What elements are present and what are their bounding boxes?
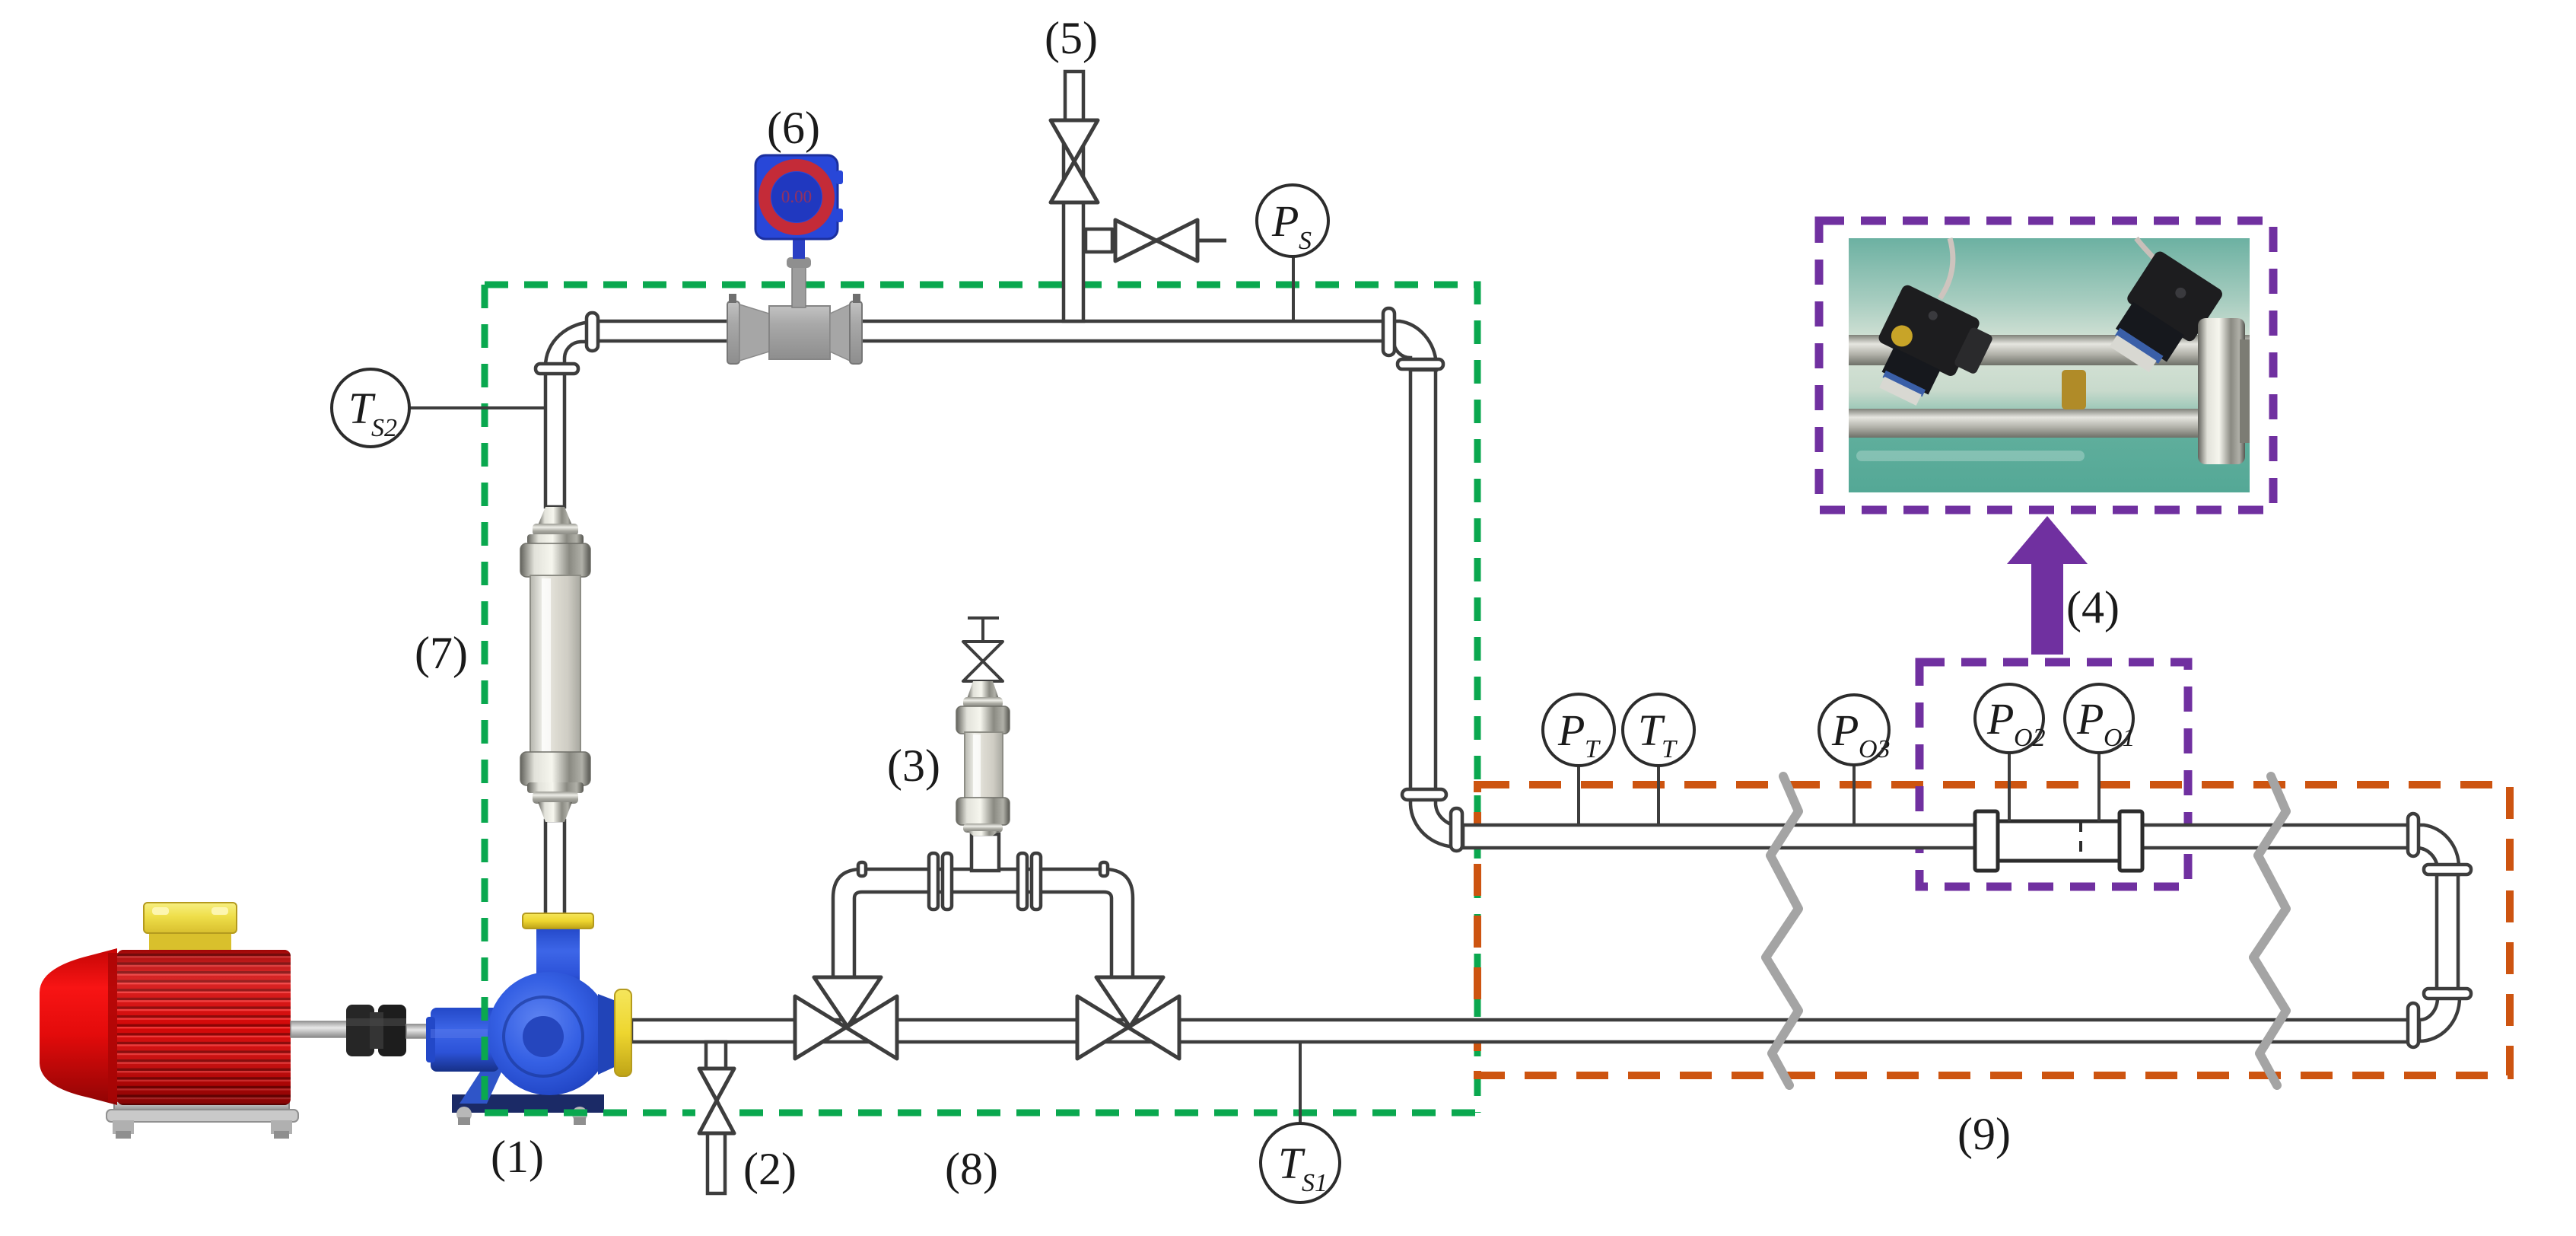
svg-text:S1: S1: [1302, 1169, 1328, 1197]
turbine flow meter (6) on top header: [727, 155, 862, 364]
label (2) drain valve: [743, 1144, 797, 1194]
svg-text:O3: O3: [1859, 735, 1891, 763]
centrifugal pump (1): [426, 913, 631, 1125]
svg-text:(5): (5): [1045, 13, 1098, 63]
top-right elbow: [1394, 321, 1436, 370]
svg-text:P: P: [1986, 694, 2014, 744]
right-pipe bottom elbow to test pipe: [1410, 799, 1463, 847]
bottom return pipe: [631, 1020, 2409, 1042]
sight glass (3) on bypass tee: [956, 681, 1010, 836]
sensor P_O3: [1819, 695, 1891, 825]
pipe-break zigzag right: [2253, 776, 2286, 1085]
flexible coupling: [346, 1005, 434, 1056]
motor shaft: [291, 1021, 350, 1037]
bypass right elbow lip: [1100, 862, 1108, 876]
vertical suction pipe pump to sight glass (7): [545, 820, 564, 919]
bypass loop pipe (staple shape): [833, 869, 1133, 980]
needle valve above sight glass (3): [963, 618, 1003, 681]
sensor P_T: [1543, 694, 1614, 825]
svg-text:(7): (7): [415, 628, 468, 678]
svg-text:(8): (8): [945, 1144, 998, 1194]
vent side valve with nipple (right of branch 5): [1086, 220, 1226, 261]
svg-text:P: P: [2076, 694, 2104, 744]
drain stub pipe (2): [706, 1042, 726, 1069]
top-left elbow: [545, 322, 598, 373]
bypass flange pair left: [929, 853, 938, 909]
photo inset box (purple dashed): [1819, 221, 2273, 510]
suction cone right: [598, 994, 618, 1075]
svg-text:0.00: 0.00: [781, 187, 812, 206]
meter flanges and body: [727, 301, 739, 364]
motor finned body (red): [117, 950, 291, 1105]
svg-text:(2): (2): [743, 1144, 797, 1194]
pipe-break zigzag left: [1766, 776, 1798, 1085]
motor terminal box (yellow): [149, 930, 231, 967]
outdoor-loop boundary box (9) (orange dashed): [1477, 785, 2510, 1075]
bypass left elbow lip: [858, 862, 866, 876]
motor feet: [114, 1091, 289, 1111]
arrow (4) purple callout arrow: [2007, 516, 2088, 655]
svg-text:O1: O1: [2104, 724, 2136, 752]
right end vertical pipe of return loop: [2437, 873, 2458, 990]
svg-text:S2: S2: [371, 414, 397, 442]
svg-text:(9): (9): [1957, 1109, 2011, 1159]
label (5) relief branch: [1045, 13, 1098, 63]
suction flange (yellow): [615, 989, 631, 1076]
pump-side shaft: [406, 1024, 434, 1038]
label (7) suction sight glass: [415, 628, 468, 678]
relief valve on branch (5) (globe valve, vertical bowtie): [1051, 120, 1098, 202]
top discharge flange (yellow): [523, 913, 593, 929]
label (1) pump: [491, 1132, 544, 1182]
svg-text:P: P: [1557, 706, 1585, 755]
svg-text:(6): (6): [767, 103, 820, 153]
label (4): [2066, 582, 2120, 632]
right end lower elbow: [2419, 998, 2460, 1041]
bearing housing: [431, 1008, 499, 1072]
riser pipe of relief branch (5): [1064, 122, 1083, 321]
sensor T_S1 (temperature): [1261, 1042, 1340, 1203]
svg-text:S: S: [1299, 227, 1312, 255]
label (6) flow meter: [767, 103, 820, 153]
label (9) outdoor section: [1957, 1109, 2011, 1159]
svg-text:T: T: [1662, 735, 1678, 763]
support strut: [460, 1047, 513, 1104]
main line 3-way valve A (left, under bypass): [795, 977, 897, 1059]
svg-text:P: P: [1271, 196, 1299, 246]
shaft into pump: [491, 1023, 525, 1035]
photo of pressure transducers on test pipe: [1849, 238, 2250, 492]
meter stem: [792, 265, 806, 307]
sensor P_O2: [1975, 684, 2046, 821]
discharge neck: [536, 927, 580, 995]
svg-text:O2: O2: [2014, 724, 2046, 752]
top header pipe: [593, 321, 1386, 341]
test-section box (purple dashed): [1919, 662, 2188, 887]
sensor T_S2 (temperature): [332, 369, 545, 447]
svg-text:(4): (4): [2066, 582, 2120, 632]
sensor T_T: [1623, 694, 1694, 825]
sensor P_O1: [2065, 684, 2136, 821]
right end upper elbow: [2418, 825, 2459, 874]
green boundary bottom edge (over pump base, gap at drain valve): [485, 1110, 1477, 1117]
label (3) bypass sight glass: [887, 741, 940, 791]
svg-text:T: T: [1585, 735, 1601, 763]
test-loop boundary box (green dashed), system loop: [485, 285, 1477, 1113]
label (8) bypass section: [945, 1144, 998, 1194]
svg-text:P: P: [1831, 706, 1859, 755]
bypass flange pair right: [1018, 853, 1027, 909]
sensor P_S (suction pressure): [1257, 185, 1328, 321]
nipple pipe above valve (5): [1065, 72, 1083, 122]
sight glass (7) on vertical pipe: [520, 507, 590, 822]
vertical pipe sight glass (7) to top elbow: [545, 370, 564, 507]
test section tube with flange blocks: [1975, 811, 2142, 871]
upper test pipe: [1461, 825, 2409, 848]
motor rear cap (red): [40, 948, 117, 1105]
electric motor (drive): [40, 903, 350, 1139]
main line 3-way valve B (right, under bypass): [1077, 977, 1179, 1059]
drain lower stub pipe (2): [708, 1132, 725, 1193]
pump base plate: [452, 1094, 604, 1113]
svg-text:(3): (3): [887, 741, 940, 791]
volute casing: [488, 972, 611, 1095]
drain valve (2) (vertical bowtie): [699, 1069, 734, 1133]
right descending pipe (top loop): [1410, 368, 1436, 790]
green boundary left edge (over pump): [482, 285, 488, 1113]
svg-text:(1): (1): [491, 1132, 544, 1182]
meter display head: [755, 155, 838, 239]
bypass tee under sight glass (3): [972, 834, 999, 871]
